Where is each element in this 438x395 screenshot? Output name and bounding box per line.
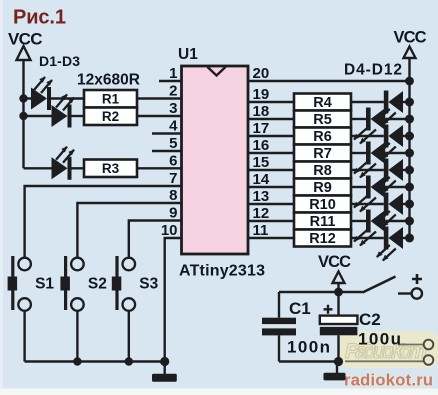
resistor R3	[84, 160, 137, 178]
svg-text:U1: U1	[178, 46, 198, 63]
resistor R8	[294, 162, 351, 180]
LED D10	[376, 193, 403, 228]
VCC arrow symbol top-left	[17, 46, 31, 60]
svg-text:12x680R: 12x680R	[77, 72, 140, 89]
svg-text:radiokot.ru: radiokot.ru	[344, 372, 433, 390]
wire D3 cathode to R3	[72, 167, 85, 169]
svg-text:R7: R7	[313, 146, 332, 162]
resistor R11	[294, 213, 351, 231]
wire D9 anode to rail	[385, 186, 409, 188]
wire pin 7 to S1	[25, 186, 181, 258]
wire pin 11 to R12	[248, 237, 294, 239]
svg-text:100n: 100n	[287, 338, 330, 357]
resistor R4	[294, 94, 351, 112]
push button S3	[112, 256, 159, 311]
wire D11 anode to rail	[385, 220, 409, 222]
junction node VCC/C2	[334, 288, 343, 297]
svg-text:2: 2	[169, 83, 177, 100]
LED D1	[31, 77, 53, 111]
svg-text:D4-D12: D4-D12	[344, 62, 402, 79]
wire S3 to bottom rail	[128, 311, 130, 362]
junction node pin20/VCC rail	[405, 77, 414, 86]
junction node: D2 anode on VCC rail	[19, 112, 27, 120]
resistor R12	[294, 230, 351, 248]
+ terminal circle	[412, 288, 422, 298]
VCC arrow symbol bottom	[333, 272, 345, 284]
svg-text:R10: R10	[309, 197, 336, 213]
capacitor C2 polarity +	[324, 305, 333, 314]
LED D5	[354, 108, 386, 145]
svg-text:R8: R8	[313, 163, 332, 179]
wire pin 8 to S2	[77, 203, 181, 258]
wire bottom rail of buttons	[25, 360, 165, 362]
svg-text:VCC: VCC	[394, 29, 427, 47]
wire pin 15 to R8	[248, 169, 294, 171]
resistor R5	[294, 111, 351, 129]
wire R5 to D5	[351, 118, 366, 120]
svg-text:19: 19	[253, 86, 270, 103]
wire pin 19 to R4	[248, 101, 294, 103]
wire R3 to pin 6	[137, 167, 181, 169]
LED D6	[376, 125, 403, 160]
svg-text:20: 20	[253, 65, 270, 82]
svg-text:3: 3	[169, 100, 177, 117]
wire D6 anode to rail	[403, 135, 410, 137]
svg-text:15: 15	[253, 154, 270, 171]
junction node ground rail	[160, 357, 169, 366]
svg-text:S2: S2	[88, 276, 107, 293]
wire S2 to bottom rail	[76, 311, 78, 362]
svg-text:R2: R2	[102, 109, 119, 124]
ground symbol bottom right	[324, 362, 346, 381]
resistor R7	[294, 145, 351, 163]
wire R1 to pin 2	[137, 97, 181, 99]
svg-text:VCC: VCC	[318, 253, 351, 271]
junction node rail row D11	[405, 217, 414, 226]
resistor R10	[294, 196, 351, 214]
svg-text:11: 11	[253, 222, 269, 239]
svg-text:8: 8	[169, 187, 177, 204]
svg-text:VCC: VCC	[8, 30, 43, 49]
LED D3	[52, 146, 75, 180]
svg-text:C1: C1	[289, 299, 311, 318]
wire pin 20 to VCC rail	[248, 80, 410, 82]
svg-text:6: 6	[169, 152, 177, 169]
svg-text:R3: R3	[102, 161, 120, 176]
svg-text:10: 10	[161, 222, 178, 239]
junction node S3 bottom	[125, 357, 133, 365]
LED D4	[376, 91, 403, 126]
LED D11	[354, 210, 386, 247]
wire bottom node	[279, 360, 339, 362]
wire D10 anode to rail	[403, 203, 410, 205]
push button S1	[8, 256, 55, 311]
junction node rail row D8	[405, 166, 414, 175]
capacitor C2	[320, 310, 401, 349]
svg-text:13: 13	[253, 188, 270, 205]
wire rail to D2	[24, 115, 52, 117]
svg-text:100u: 100u	[358, 330, 401, 349]
svg-text:R11: R11	[310, 214, 336, 230]
svg-text:14: 14	[253, 171, 270, 188]
wire R11 to D11	[351, 220, 366, 222]
svg-text:D1-D3: D1-D3	[39, 53, 80, 69]
svg-text:1: 1	[169, 65, 177, 82]
svg-text:Рис.1: Рис.1	[13, 7, 66, 29]
wire VCC arrow to node	[337, 283, 339, 292]
resistor R9	[294, 179, 351, 197]
wire C1 top lead	[278, 292, 280, 318]
svg-text:R9: R9	[313, 180, 332, 196]
junction node rail row D9	[405, 183, 414, 192]
wire pin 16 to R7	[248, 152, 294, 154]
wire stub pin 4	[152, 132, 181, 134]
wire pin 18 to R5	[248, 118, 294, 120]
svg-text:16: 16	[253, 137, 270, 154]
junction node rail row D12	[405, 234, 414, 243]
wire D4 anode to rail	[403, 101, 410, 103]
LED D8	[376, 159, 403, 194]
wire pin 12 to R11	[248, 220, 294, 222]
wire R6 to D6	[351, 135, 384, 137]
ground symbol under chip	[152, 362, 177, 382]
svg-text:7: 7	[169, 170, 177, 187]
svg-text:S1: S1	[35, 276, 54, 293]
wire pin 14 to R9	[248, 186, 294, 188]
wire VCC rail left	[22, 60, 24, 168]
wire D12 anode to rail	[403, 237, 410, 239]
wire S1 to bottom rail	[23, 311, 25, 362]
svg-text:R5: R5	[313, 112, 332, 128]
wire rail to D1	[24, 97, 32, 99]
wire C2 top lead	[337, 292, 339, 316]
wire stub pin 1	[159, 80, 181, 82]
svg-text:ATtiny2313: ATtiny2313	[179, 263, 265, 280]
wire D1 cathode to R1	[51, 97, 84, 99]
resistor R2	[84, 108, 137, 126]
junction node rail row D7	[405, 149, 414, 158]
svg-text:4: 4	[169, 118, 178, 135]
LED D9	[354, 176, 386, 213]
wire VCC rail right	[408, 81, 410, 238]
svg-text:R1: R1	[102, 92, 120, 107]
junction node rail row D10	[405, 200, 414, 209]
wire R10 to D10	[351, 203, 384, 205]
svg-text:17: 17	[253, 120, 270, 137]
junction node S2 bottom	[73, 357, 81, 365]
wire power node horizontal	[279, 291, 363, 293]
resistor R6	[294, 128, 351, 146]
wire switch to + terminal	[398, 292, 411, 294]
wire C2 bottom lead	[337, 335, 339, 361]
wire pin 13 to R10	[248, 203, 294, 205]
svg-text:9: 9	[169, 205, 177, 222]
capacitor C1	[262, 299, 330, 357]
resistor R1	[84, 90, 137, 108]
wire R4 to D4	[351, 101, 384, 103]
svg-text:R6: R6	[313, 129, 332, 145]
svg-text:18: 18	[253, 103, 270, 120]
wire D7 anode to rail	[385, 152, 409, 154]
wire VCC arrow to rail	[408, 58, 410, 81]
wire D2 cathode to R2	[72, 115, 85, 117]
svg-text:12: 12	[253, 205, 270, 222]
junction node: D1 anode on VCC rail	[19, 94, 27, 102]
switch blade SA1	[363, 277, 396, 293]
wire R7 to D7	[351, 152, 366, 154]
wire stub pin 5	[152, 150, 181, 152]
junction node rail row D4	[405, 98, 414, 107]
svg-text:R12: R12	[309, 231, 336, 247]
svg-text:S3: S3	[139, 276, 158, 293]
LED D7	[354, 142, 386, 179]
wire pin 10 to ground	[165, 238, 181, 362]
wire R9 to D9	[351, 186, 366, 188]
wire pin 17 to R6	[248, 135, 294, 137]
wire R12 to D12	[351, 237, 384, 239]
VCC arrow symbol top-right	[404, 47, 416, 59]
wire R2 to pin 3	[137, 115, 181, 117]
svg-text:5: 5	[169, 135, 177, 152]
+ polarity label	[412, 274, 422, 284]
junction node C2/ground	[334, 357, 343, 366]
wire C1 bottom lead	[278, 335, 280, 361]
LED D12	[376, 227, 403, 262]
wire D8 anode to rail	[403, 169, 410, 171]
junction node rail row D6	[405, 132, 414, 141]
watermark logo box	[340, 331, 438, 368]
push button S2	[60, 256, 106, 311]
wire pin 9 to S3	[129, 221, 181, 258]
LED D2	[52, 94, 75, 128]
IC U1 ATtiny2313	[178, 46, 265, 280]
wire R8 to D8	[351, 169, 384, 171]
wire rail corner to D3	[24, 167, 52, 169]
wire D5 anode to rail	[385, 118, 409, 120]
junction node rail row D5	[405, 115, 414, 124]
svg-text:C2: C2	[359, 310, 381, 329]
svg-text:R4: R4	[313, 95, 332, 111]
